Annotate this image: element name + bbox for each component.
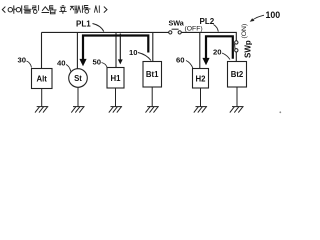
title hangul 들 [24, 6, 31, 13]
component H2 (load 60) [193, 69, 209, 89]
wire St drop [76, 32, 78, 68]
leader PL2 [214, 25, 219, 32]
component Bt2 (battery 20) [228, 62, 247, 88]
svg-text:30: 30 [18, 56, 27, 65]
arrow to 100 [252, 15, 264, 20]
leader 50 [102, 63, 108, 68]
svg-text:60: 60 [176, 55, 185, 64]
svg-text:SWp: SWp [243, 40, 252, 58]
ground H2 [194, 88, 207, 113]
title hangul 링 [33, 6, 39, 14]
svg-text:Bt1: Bt1 [146, 70, 159, 79]
wire H1 drop [115, 32, 117, 67]
title hangul 시 (second) [95, 6, 100, 12]
title hangul 스 [42, 7, 49, 13]
wire Alt drop [41, 32, 43, 68]
svg-text:50: 50 [93, 58, 102, 67]
component H1 (load 50) [107, 68, 124, 89]
stray dot [279, 111, 281, 113]
component St (starter 40) [69, 69, 88, 88]
leader 40 [66, 65, 71, 72]
switch SWp (ON) [235, 41, 239, 62]
wire H2 drop [199, 32, 201, 68]
wire PL2 bus [181, 32, 236, 40]
title bracket right [104, 7, 107, 12]
ground Bt2 [230, 87, 244, 113]
svg-text:SWa: SWa [169, 18, 185, 27]
ground H1 [109, 88, 122, 113]
title hangul 톱 [49, 6, 56, 14]
title hangul 재 [70, 6, 76, 13]
svg-text:40: 40 [57, 59, 66, 68]
title hangul 이 [16, 6, 22, 13]
title bracket left [2, 7, 5, 12]
leader 10 [138, 53, 151, 61]
wire Bt1 drop [152, 32, 154, 61]
title hangul 시 [78, 6, 83, 12]
wire PL1 bus [42, 31, 169, 33]
leader 60 [186, 61, 193, 69]
leader 20 [222, 53, 230, 60]
component Bt1 (battery 10) [143, 62, 162, 88]
svg-text:H1: H1 [111, 74, 122, 83]
svg-text:(OFF): (OFF) [185, 25, 203, 32]
leader PL1 [93, 24, 104, 32]
svg-text:St: St [74, 74, 82, 83]
svg-text:100: 100 [266, 10, 281, 20]
title hangul 동 [84, 6, 91, 14]
switch SWa (OFF) [169, 29, 182, 34]
ground Alt [35, 89, 48, 113]
svg-text:H2: H2 [196, 75, 207, 84]
leader 30 [27, 61, 32, 68]
ground Bt1 [146, 87, 159, 113]
ground St [71, 87, 84, 112]
svg-text:PL1: PL1 [76, 19, 91, 28]
current path Bt2 to H2 (thick) [206, 36, 233, 59]
title hangul 아 [8, 6, 15, 13]
svg-text:10: 10 [129, 48, 138, 57]
svg-text:Alt: Alt [36, 75, 47, 84]
svg-text:Bt2: Bt2 [231, 70, 244, 79]
current arrow into H1 (thin) [119, 34, 121, 61]
svg-text:20: 20 [213, 48, 222, 57]
title hangul 후 [60, 6, 66, 14]
svg-text:(ON): (ON) [241, 24, 248, 39]
component Alt (alternator 30) [32, 69, 53, 89]
current path Bt1 to St (thick) [83, 36, 148, 60]
